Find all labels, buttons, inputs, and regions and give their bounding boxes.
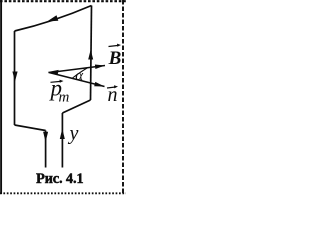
dashed border left	[0, 0, 2, 194]
svg-text:α: α	[75, 68, 84, 84]
angle alpha arc	[73, 68, 89, 79]
arrow hat of pm label	[51, 80, 61, 83]
svg-text:y: y	[68, 123, 79, 145]
svg-text:B: B	[108, 48, 122, 69]
wire: loop top edge	[15, 6, 92, 32]
current arrow on top edge	[47, 15, 58, 21]
current arrow on left edge	[12, 72, 17, 82]
vector B shaft	[50, 66, 105, 73]
arrow hat of n label	[107, 87, 116, 88]
wire: loop bottom-right edge	[62, 100, 90, 113]
vector pm arrowhead	[48, 70, 59, 75]
vector n arrowhead	[94, 82, 104, 87]
dashed border right	[122, 0, 124, 194]
current arrow on left lead	[43, 132, 48, 142]
svg-text:Рис. 4.1: Рис. 4.1	[36, 171, 83, 187]
current arrow on right edge	[88, 50, 93, 60]
wire: loop bottom-left edge	[15, 125, 46, 131]
dashed border bottom	[0, 192, 126, 194]
wire: left lead	[45, 131, 47, 168]
svg-text:m: m	[59, 90, 70, 106]
dashed border top	[0, 0, 126, 2]
current arrow on right lead	[60, 129, 65, 140]
vector B arrowhead	[95, 65, 105, 70]
vector pm/n shaft	[49, 72, 105, 86]
wire: right lead	[61, 113, 63, 168]
arrow hat of B label	[109, 45, 119, 46]
wire: loop right edge	[91, 6, 92, 101]
wire: loop left edge	[14, 31, 16, 125]
